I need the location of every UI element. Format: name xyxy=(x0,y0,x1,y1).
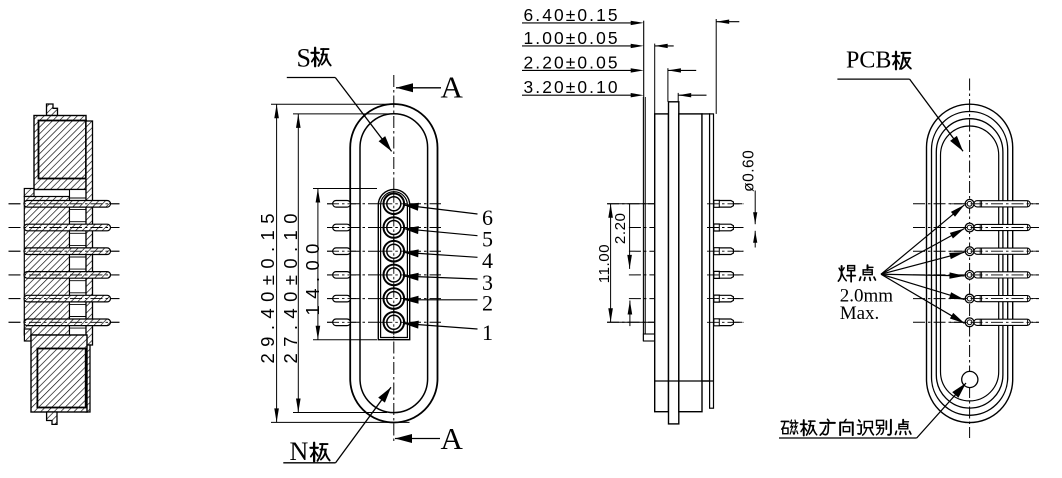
svg-text:S: S xyxy=(297,44,311,73)
svg-text:PCB: PCB xyxy=(846,48,891,74)
svg-text:Max.: Max. xyxy=(840,303,880,324)
svg-text:14.00: 14.00 xyxy=(302,237,323,315)
svg-text:2.20: 2.20 xyxy=(612,213,629,245)
svg-text:3.20±0.10: 3.20±0.10 xyxy=(524,77,620,97)
svg-text:6.40±0.15: 6.40±0.15 xyxy=(524,5,620,25)
svg-text:A: A xyxy=(441,70,464,105)
svg-text:1.00±0.05: 1.00±0.05 xyxy=(524,28,620,48)
svg-text:N: N xyxy=(290,437,309,466)
svg-text:A: A xyxy=(441,421,464,456)
svg-text:1: 1 xyxy=(482,320,493,345)
svg-text:27.40±0.10: 27.40±0.10 xyxy=(280,207,301,363)
svg-text:11.00: 11.00 xyxy=(596,244,613,283)
svg-text:2.20±0.05: 2.20±0.05 xyxy=(524,52,620,72)
svg-text:ø0.60: ø0.60 xyxy=(741,150,758,192)
svg-text:29.40±0.15: 29.40±0.15 xyxy=(257,207,278,363)
svg-text:2: 2 xyxy=(482,291,493,316)
